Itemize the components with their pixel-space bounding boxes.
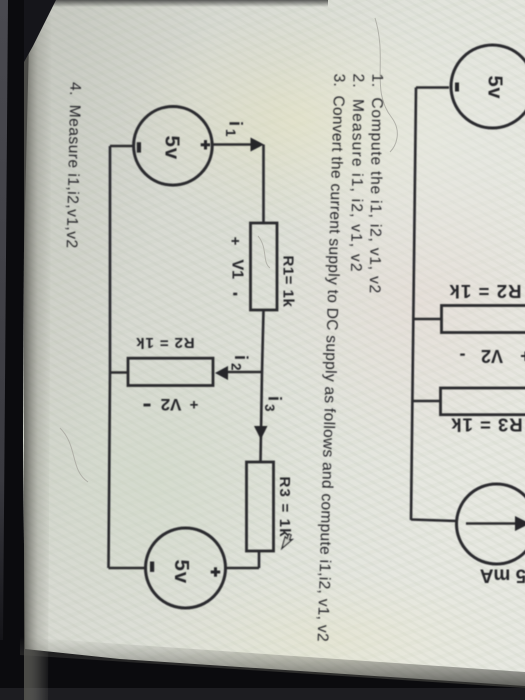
wire stub resistor R3 top [413, 400, 441, 403]
resistor R3 (bottom circuit) [247, 462, 274, 551]
svg-text:V1: V1 [229, 260, 246, 280]
svg-text:R1= 1k: R1= 1k [280, 256, 297, 308]
svg-text:V2: V2 [481, 346, 503, 366]
minus right source [150, 562, 154, 572]
wire stub resistor R2 top [414, 318, 442, 321]
label plus right source [211, 567, 221, 576]
wire junction to i2 arrow [228, 371, 262, 374]
label plus left source [201, 140, 211, 149]
wire junction down to R3 [261, 372, 263, 463]
wire source minus to rail [110, 145, 134, 148]
wire corner to right source plus [226, 567, 260, 570]
svg-text:-: - [460, 346, 466, 366]
current source arrow [466, 522, 516, 525]
wire corner down to R1 [262, 145, 265, 224]
svg-text:R2 = 1k: R2 = 1k [135, 334, 194, 351]
wire long bottom rail [411, 88, 416, 521]
wire left rail [109, 146, 111, 568]
mouse cursor glyph [279, 533, 294, 551]
svg-text:R2 = 1k: R2 = 1k [448, 281, 521, 302]
svg-text:R3 = 1k: R3 = 1k [450, 415, 522, 436]
resistor R3 (top circuit) [441, 388, 525, 415]
label minus of V2 (bottom circuit) [144, 404, 151, 407]
wire plus terminal to corner [212, 143, 257, 146]
arrowhead i2 [215, 366, 228, 380]
wire R1 to junction [262, 310, 264, 372]
wire source to rail corner [416, 86, 449, 89]
svg-text:+: + [227, 237, 244, 246]
svg-text:R3 = 1k: R3 = 1k [276, 477, 293, 538]
left edge shadow on paper [24, 0, 52, 700]
svg-text:+: + [189, 396, 198, 413]
resistor R1 [251, 223, 278, 310]
arrowhead i1 [251, 138, 265, 152]
arrowhead i3 [254, 426, 268, 440]
wire rail corner to right source [109, 567, 147, 570]
faint hair on photo (middle) [258, 236, 270, 268]
faint hair on photo (bottom left) [60, 428, 88, 482]
svg-text:V2: V2 [161, 395, 182, 414]
current source arrowhead [515, 516, 525, 531]
svg-text:+: + [520, 346, 525, 366]
voltage source 5V right (bottom circuit) [146, 528, 226, 608]
wire rail to current source [411, 520, 457, 522]
faint hair on photo (top) [375, 18, 397, 152]
wire R3 to corner [258, 551, 261, 568]
svg-text:5 mA: 5 mA [479, 565, 525, 586]
svg-text:1. Compute the i1, i2, v1, v2: 1. Compute the i1, i2, v1, v2 [366, 73, 386, 294]
current source 5mA [457, 484, 525, 564]
label minus of V1 [233, 293, 237, 296]
resistor R2 (top circuit) [442, 306, 525, 333]
wire R2 to left rail [110, 371, 129, 374]
minus sign top source [455, 83, 459, 92]
minus left source [137, 142, 141, 152]
voltage source 5V (top circuit) [451, 45, 525, 128]
svg-text:5v: 5v [170, 560, 193, 584]
voltage source 5V left (bottom circuit) [134, 107, 213, 186]
bottom edge shadow on paper [20, 637, 525, 688]
svg-text:5v: 5v [161, 136, 184, 160]
top edge shadow [28, 0, 328, 7]
svg-text:5v: 5v [484, 76, 506, 100]
svg-text:2. Measure i1, i2, v1, v2: 2. Measure i1, i2, v1, v2 [347, 73, 366, 272]
resistor R2 (bottom circuit) [128, 358, 213, 385]
top-left dark wedge (paper corner) [24, 0, 56, 62]
